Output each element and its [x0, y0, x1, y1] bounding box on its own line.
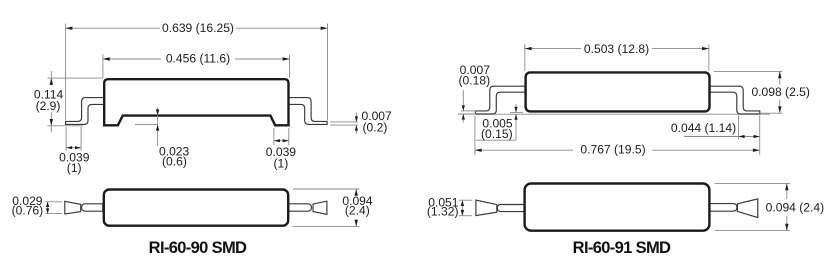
dimension 0.503 (12.8) [525, 42, 709, 71]
body outline RI-60-90 side view [104, 79, 288, 125]
right lead RI-60-91 side view [710, 86, 760, 114]
right wire RI-60-91 top view [709, 204, 737, 212]
dimension 0.094 (2.4) right figure [715, 183, 825, 230]
dimension 0.005 (0.15) standoff [476, 104, 523, 141]
svg-text:(1): (1) [67, 161, 82, 175]
svg-text:(2.4): (2.4) [345, 204, 370, 218]
dimension 0.114 (2.9) [34, 71, 103, 133]
svg-text:(0.76): (0.76) [12, 203, 44, 217]
left paddle lead RI-60-90 top view [65, 201, 81, 214]
dimension 0.023 (0.6) standoff [135, 108, 190, 169]
svg-text:0.456 (11.6): 0.456 (11.6) [166, 51, 230, 65]
label RI-60-90 SMD [149, 239, 247, 257]
dimension 0.044 (1.14) right foot [671, 116, 760, 156]
svg-text:0.098 (2.5): 0.098 (2.5) [751, 85, 810, 99]
svg-text:(0.6): (0.6) [162, 154, 187, 168]
right wire RI-60-90 top view [289, 204, 312, 211]
dimension 0.767 (19.5) [475, 116, 760, 157]
svg-text:0.503 (12.8): 0.503 (12.8) [584, 42, 649, 56]
dimension 0.051 (1.32) [427, 195, 472, 218]
left lead RI-60-90 side view [66, 98, 104, 125]
svg-text:(0.15): (0.15) [481, 127, 513, 141]
body outline RI-60-91 top view [525, 184, 710, 231]
left wire RI-60-90 top view [82, 204, 103, 211]
left lead RI-60-91 side view [475, 86, 525, 114]
dimension 0.039 (1) left foot [59, 127, 90, 175]
svg-text:(1.32): (1.32) [427, 205, 459, 219]
dimension 0.098 (2.5) [714, 71, 810, 113]
right paddle lead RI-60-90 top view [313, 201, 327, 214]
svg-text:(0.2): (0.2) [363, 120, 388, 134]
svg-text:0.639 (16.25): 0.639 (16.25) [162, 21, 234, 35]
dimension 0.456 (11.6) [103, 51, 290, 77]
svg-text:0.094 (2.4): 0.094 (2.4) [766, 200, 825, 214]
svg-text:0.767 (19.5): 0.767 (19.5) [580, 143, 645, 157]
dimension 0.007 (0.18) lead thickness [458, 63, 490, 123]
body outline RI-60-90 top view [104, 190, 288, 226]
dimension 0.007 (0.2) lead thickness [330, 109, 392, 135]
label RI-60-91 SMD [573, 239, 671, 257]
svg-text:(2.9): (2.9) [36, 99, 61, 113]
dimension 0.029 (0.76) [12, 194, 62, 217]
svg-text:0.044 (1.14): 0.044 (1.14) [671, 121, 736, 135]
right paddle lead RI-60-91 top view [737, 199, 757, 218]
svg-text:(0.18): (0.18) [459, 73, 491, 87]
dimension 0.094 (2.4) left figure [293, 189, 373, 227]
left wire RI-60-91 top view [497, 205, 524, 212]
dimension 0.039 (1) right foot [266, 128, 297, 170]
dimension 0.639 (16.25) [66, 21, 328, 120]
left paddle lead RI-60-91 top view [476, 200, 497, 216]
svg-text:(1): (1) [274, 156, 289, 170]
body outline RI-60-91 side view [526, 72, 710, 111]
seating plane line RI-60-91 side view [458, 113, 770, 115]
svg-text:RI-60-90 SMD: RI-60-90 SMD [149, 239, 247, 257]
right lead RI-60-90 side view [289, 98, 327, 125]
svg-text:RI-60-91 SMD: RI-60-91 SMD [573, 239, 671, 257]
